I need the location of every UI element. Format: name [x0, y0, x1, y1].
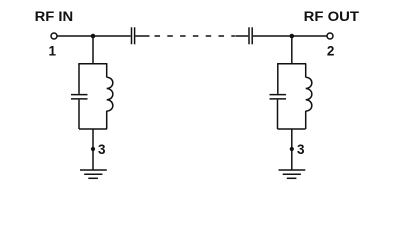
wire: left tank to ground	[92, 129, 94, 170]
wire: C1 lead right	[135, 35, 149, 37]
ground (left) bar 1	[80, 169, 107, 171]
svg-text:RF IN: RF IN	[35, 9, 74, 24]
capacitor C2 (series) left plate	[248, 27, 250, 44]
wire: right inductor bottom lead	[305, 111, 307, 129]
wire: C2 to node B	[253, 35, 327, 37]
capacitor C2 (series) right plate	[251, 27, 253, 44]
node A junction dot	[91, 34, 96, 39]
pin 3 dot (left)	[91, 147, 95, 151]
dashed wire (omitted sections)	[155, 35, 235, 37]
wire: left inductor top lead	[106, 64, 108, 78]
wire: left tank bottom bar	[79, 128, 107, 130]
wire: left tank cap to bottom bar	[78, 100, 80, 129]
svg-text:3: 3	[297, 142, 305, 157]
inductor L2 (right tank)	[306, 77, 312, 111]
inductor L1 (left tank)	[107, 77, 113, 111]
node B junction dot	[290, 34, 295, 39]
wire: right tank to ground	[291, 129, 293, 170]
ground (left) bar 3	[88, 177, 98, 179]
ground (right) bar 2	[283, 173, 301, 175]
capacitor right tank top plate	[270, 94, 287, 96]
svg-text:RF OUT: RF OUT	[304, 9, 360, 24]
wire: right tank cap branch upper lead	[277, 64, 279, 94]
svg-text:3: 3	[98, 142, 106, 157]
svg-text:1: 1	[49, 44, 57, 59]
wire: node B down to right tank	[291, 36, 293, 64]
wire: lead into C2	[235, 35, 248, 37]
wire: right tank bottom bar	[278, 128, 306, 130]
wire: left tank cap branch upper lead	[78, 64, 80, 94]
svg-text:2: 2	[327, 43, 335, 58]
capacitor left tank top plate	[71, 94, 88, 96]
capacitor left tank bottom plate	[71, 98, 88, 100]
wire: left tank top bar	[78, 63, 107, 65]
wire: left inductor bottom lead	[106, 111, 108, 129]
capacitor C1 (series) right plate	[134, 27, 136, 44]
wire: right tank top bar	[277, 63, 306, 65]
wire: right tank cap to bottom bar	[277, 100, 279, 129]
terminal 2 (port circle)	[327, 33, 333, 39]
wire: node A down to left tank	[92, 36, 94, 64]
ground (right) bar 1	[279, 169, 306, 171]
pin 3 dot (right)	[290, 147, 294, 151]
wire: port 1 to node A	[57, 35, 130, 37]
capacitor right tank bottom plate	[270, 98, 287, 100]
capacitor C1 (series) left plate	[131, 27, 133, 44]
wire: right inductor top lead	[305, 64, 307, 78]
ground (right) bar 3	[287, 177, 297, 179]
ground (left) bar 2	[84, 173, 102, 175]
terminal 1 (port circle)	[51, 33, 57, 39]
